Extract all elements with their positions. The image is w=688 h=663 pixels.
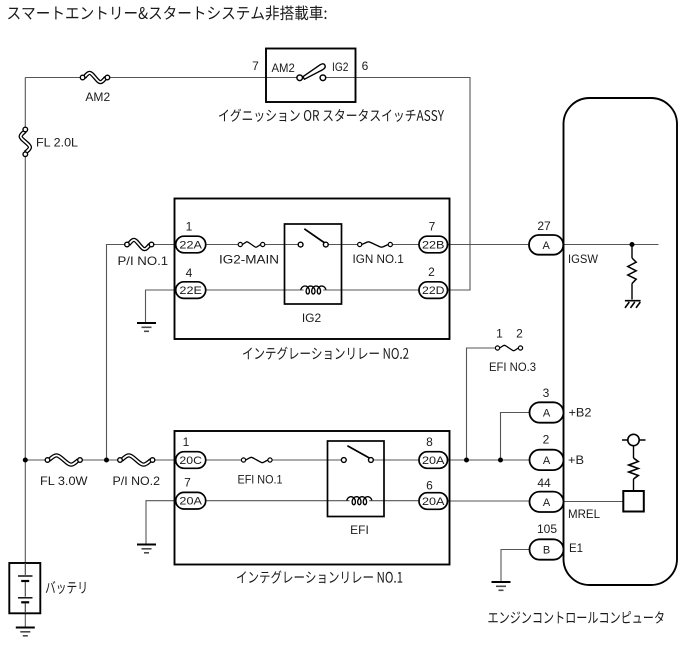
pin 20A(8) bbox=[419, 452, 448, 469]
fusible link P/I NO.2 bbox=[122, 455, 152, 464]
wire ignition switch IG2 to relay NO.2 pin 22D bbox=[356, 78, 471, 291]
svg-text:FL 3.0W: FL 3.0W bbox=[40, 474, 88, 488]
svg-text:1: 1 bbox=[496, 327, 503, 341]
junction IGSW/resistor bbox=[630, 242, 635, 247]
resistor (MREL driver) bbox=[629, 458, 639, 479]
wire relay NO.2 row 22E-22D bbox=[206, 289, 420, 291]
wire branch to P/I NO.1 and 22A bbox=[107, 245, 177, 461]
svg-text:EFI NO.1: EFI NO.1 bbox=[238, 473, 283, 487]
pin A44 MREL bbox=[530, 492, 564, 512]
svg-text:B: B bbox=[543, 544, 550, 556]
pin A3 +B2 bbox=[530, 402, 564, 422]
バッテリ label bbox=[46, 581, 86, 594]
resistor (IGSW pull-down) bbox=[631, 245, 633, 259]
svg-text:6: 6 bbox=[362, 59, 369, 73]
ground (E1) (earth ground) bbox=[492, 581, 511, 583]
svg-text:7: 7 bbox=[184, 476, 191, 490]
svg-text:20A: 20A bbox=[422, 496, 445, 508]
svg-text:+B: +B bbox=[568, 453, 584, 467]
pin A2 +B bbox=[530, 450, 564, 470]
svg-text:22A: 22A bbox=[179, 239, 202, 251]
relay IG2 switch contact bbox=[304, 229, 325, 243]
fuse IG2-MAIN bbox=[243, 242, 261, 247]
pin A27 IGSW bbox=[529, 235, 563, 255]
junction battery feed / +B row bbox=[23, 458, 28, 463]
fuse IGN NO.1 bbox=[362, 242, 388, 247]
ECU body (engine control computer) bbox=[564, 98, 678, 585]
svg-text:A: A bbox=[542, 240, 550, 252]
svg-text:2: 2 bbox=[516, 327, 523, 341]
ignition switch contacts AM2/IG2 bbox=[303, 64, 325, 79]
svg-text:IGSW: IGSW bbox=[568, 252, 599, 266]
svg-text:7: 7 bbox=[252, 59, 259, 73]
svg-text:A: A bbox=[543, 407, 551, 419]
svg-text:22E: 22E bbox=[179, 285, 202, 297]
svg-text:44: 44 bbox=[537, 476, 551, 490]
svg-text:4: 4 bbox=[186, 266, 193, 280]
wire inside ignition switch box bbox=[266, 77, 356, 79]
svg-text:P/I NO.1: P/I NO.1 bbox=[118, 254, 169, 268]
wire MREL internal bbox=[563, 501, 623, 503]
pin 20C bbox=[176, 452, 206, 469]
svg-text:1: 1 bbox=[186, 220, 193, 234]
svg-text:8: 8 bbox=[426, 435, 433, 449]
svg-text:A: A bbox=[543, 455, 551, 467]
svg-text:IG2: IG2 bbox=[302, 311, 322, 325]
svg-text:20C: 20C bbox=[179, 455, 202, 467]
ignition switch box U-IGN bbox=[266, 49, 356, 103]
wire 22B to ECU pin A27 bbox=[448, 244, 530, 246]
svg-text:3: 3 bbox=[543, 386, 550, 400]
ground (relay NO.2 pin 22E) (earth ground) bbox=[137, 322, 156, 324]
relay EFI coil bbox=[347, 497, 372, 505]
wire relay NO.1 row 20A-20A bbox=[206, 500, 420, 502]
wire left vertical battery feed bbox=[24, 78, 26, 564]
svg-text:A: A bbox=[543, 497, 551, 509]
junction P/I branch / +B row bbox=[104, 458, 109, 463]
svg-text:105: 105 bbox=[537, 522, 557, 536]
svg-text:P/I NO.2: P/I NO.2 bbox=[113, 474, 161, 488]
svg-text:20A: 20A bbox=[422, 455, 445, 467]
svg-text:E1: E1 bbox=[569, 541, 583, 555]
label エンジンコントロールコンピュータ bbox=[488, 611, 663, 623]
relay IG2 coil bbox=[301, 286, 326, 294]
relay IG2 inner box bbox=[285, 224, 342, 304]
pin B105 E1 bbox=[530, 539, 564, 559]
wire IGSW internal bbox=[563, 244, 658, 246]
wire main +B row (battery to ECU) bbox=[25, 459, 530, 461]
fusible link FL 3.0W bbox=[49, 455, 79, 464]
battery バッテリ bbox=[9, 563, 40, 613]
wire battery+ to ignition switch (top) bbox=[25, 77, 266, 79]
label インテグレーションリレー NO.1 bbox=[237, 570, 402, 583]
svg-text:IG2: IG2 bbox=[332, 60, 349, 74]
fuse EFI NO.1 bbox=[246, 457, 268, 462]
svg-text:2: 2 bbox=[428, 265, 435, 279]
ground (relay NO.1 pin 20A) (earth ground) bbox=[137, 544, 156, 546]
svg-text:22B: 22B bbox=[422, 239, 445, 251]
relay EFI switch contact bbox=[347, 446, 369, 459]
fusible link FL 2.0L bbox=[21, 131, 30, 153]
MREL driver block (square) bbox=[623, 491, 644, 512]
label イグニッション OR スタータスイッチASSY bbox=[219, 109, 444, 122]
svg-text:EFI NO.3: EFI NO.3 bbox=[489, 360, 536, 374]
svg-text:6: 6 bbox=[426, 479, 433, 493]
svg-text:20A: 20A bbox=[179, 496, 202, 508]
svg-text:22D: 22D bbox=[422, 285, 445, 297]
title text スマートエントリー&スタートシステム非搭載車: bbox=[8, 5, 326, 20]
svg-text:2: 2 bbox=[543, 433, 550, 447]
pin 20A(6) bbox=[419, 493, 448, 510]
fusible link AM2 bbox=[84, 73, 106, 82]
wire battery- to ground bbox=[24, 613, 26, 627]
wire 20A(7) to ground bbox=[146, 501, 176, 544]
svg-text:IGN NO.1: IGN NO.1 bbox=[353, 252, 405, 266]
power symbol (circle) for MREL driver bbox=[622, 439, 646, 441]
integration relay NO.1 box bbox=[175, 431, 450, 565]
wire 20A(6) to ECU pin A44 bbox=[448, 500, 531, 502]
label インテグレーションリレー NO.2 bbox=[243, 347, 408, 360]
pin 20A(7) bbox=[176, 492, 206, 509]
junction +B2 branch / +B row bbox=[498, 458, 503, 463]
junction EFI NO.3 branch / +B row bbox=[464, 458, 469, 463]
svg-text:FL 2.0L: FL 2.0L bbox=[36, 136, 78, 150]
fusible link P/I NO.1 bbox=[129, 240, 151, 249]
pin 22B bbox=[419, 236, 448, 253]
svg-text:27: 27 bbox=[537, 219, 551, 233]
wire EFI NO.3 branch bbox=[467, 348, 498, 460]
svg-text:AM2: AM2 bbox=[85, 90, 110, 104]
pin 22A bbox=[176, 236, 206, 253]
svg-text:AM2: AM2 bbox=[272, 61, 296, 75]
pin 22E bbox=[176, 282, 206, 299]
wire relay NO.2 row 22A-22B bbox=[206, 244, 420, 246]
ground (battery) (earth ground) bbox=[16, 627, 35, 629]
integration relay NO.2 box bbox=[175, 199, 450, 340]
relay EFI inner box bbox=[328, 441, 385, 517]
svg-text:IG2-MAIN: IG2-MAIN bbox=[219, 253, 279, 267]
wire 22E to ground bbox=[146, 290, 177, 322]
chassis ground (IGSW resistor) bbox=[625, 300, 641, 302]
svg-text:EFI: EFI bbox=[350, 523, 369, 537]
wire E1 B105 to ground bbox=[501, 550, 530, 582]
pin 22D bbox=[419, 282, 448, 299]
fuse EFI NO.3 bbox=[500, 345, 519, 350]
svg-text:MREL: MREL bbox=[568, 507, 600, 521]
svg-text:1: 1 bbox=[183, 435, 190, 449]
wire +B2 branch bbox=[501, 413, 531, 461]
svg-text:+B2: +B2 bbox=[569, 406, 592, 420]
svg-text:7: 7 bbox=[429, 220, 436, 234]
